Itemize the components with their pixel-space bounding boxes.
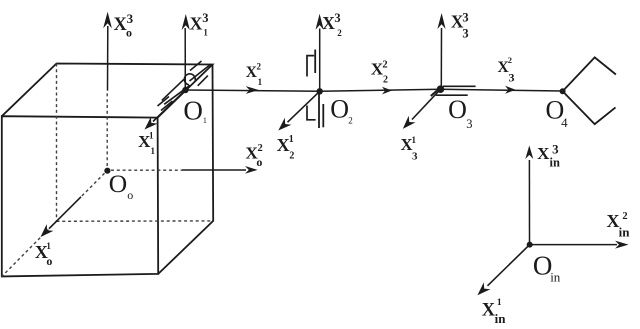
axis X_o^2 arrow — [182, 166, 258, 174]
svg-text:X: X — [537, 144, 550, 163]
axis X_3^2 arrow and link O_3 to O_4 — [441, 86, 563, 94]
svg-text:O: O — [183, 95, 203, 125]
svg-text:2: 2 — [348, 115, 353, 125]
label O_2 — [330, 94, 353, 125]
svg-text:1: 1 — [149, 130, 154, 140]
svg-text:1: 1 — [412, 135, 417, 145]
svg-text:o: o — [126, 25, 132, 39]
svg-text:3: 3 — [462, 27, 468, 41]
label X_2^1 — [277, 134, 295, 161]
axis X_2^2 arrow and link O_2 to O_3 — [320, 87, 441, 95]
axis X_o^2 hidden segment inside cube — [111, 169, 182, 171]
svg-text:o: o — [127, 188, 133, 202]
axis X_3^3 arrow — [437, 13, 445, 88]
svg-text:2: 2 — [258, 143, 263, 154]
cube hidden back-left vertical edge — [56, 64, 58, 222]
revolute joint cylinder at O_3 — [431, 86, 476, 96]
svg-text:O: O — [109, 169, 127, 198]
svg-text:1: 1 — [46, 241, 51, 251]
svg-text:1: 1 — [203, 27, 208, 37]
axis X_o^3 hidden segment inside cube — [106, 91, 108, 166]
svg-text:3: 3 — [466, 117, 472, 131]
svg-text:O: O — [448, 95, 467, 124]
label O_in — [533, 251, 561, 285]
svg-text:2: 2 — [383, 74, 388, 85]
svg-text:1: 1 — [151, 146, 156, 156]
label O_1 — [183, 95, 207, 125]
cube right face edges — [158, 65, 213, 274]
label X_2^2 — [371, 60, 388, 86]
label X_3^2 — [498, 55, 515, 85]
label O_3 — [448, 95, 472, 131]
svg-text:X: X — [190, 13, 203, 33]
label X_in^3 — [537, 141, 560, 169]
prismatic joint rod lower lines at O_2 — [319, 91, 323, 128]
svg-text:3: 3 — [334, 11, 340, 25]
label X_o^1 — [35, 241, 53, 268]
axis X_in^1 arrow — [477, 245, 529, 296]
svg-text:3: 3 — [462, 11, 468, 25]
svg-text:3: 3 — [127, 11, 134, 26]
label O_o — [109, 169, 134, 202]
gripper lower jaw at O_4 — [563, 91, 616, 124]
axis X_3^1 arrow — [403, 89, 441, 129]
label X_1^1 — [138, 130, 155, 156]
cube front face — [2, 116, 158, 276]
svg-text:3: 3 — [552, 141, 559, 156]
axis X_2^3 arrow — [316, 14, 324, 90]
axis X_1^3 arrow — [182, 14, 190, 89]
axis X_o^3 arrow — [103, 12, 112, 91]
svg-text:in: in — [495, 311, 507, 326]
svg-text:2: 2 — [337, 28, 342, 38]
label X_2^3 — [322, 11, 342, 38]
svg-text:1: 1 — [258, 77, 263, 87]
label X_in^1 — [482, 298, 507, 326]
origin O_o — [104, 168, 110, 174]
revolute joint cylinder at O_1 — [158, 61, 212, 111]
svg-text:3: 3 — [412, 150, 418, 162]
origin O_1 — [182, 87, 188, 93]
axis X_o^1 arrow — [41, 197, 82, 237]
svg-text:2: 2 — [508, 55, 512, 65]
label X_o^3 — [114, 11, 134, 40]
svg-text:X: X — [607, 211, 620, 231]
origin O_in — [527, 242, 533, 248]
svg-text:1: 1 — [289, 134, 294, 145]
label X_in^2 — [607, 211, 631, 240]
svg-text:2: 2 — [382, 60, 387, 71]
svg-text:in: in — [619, 224, 631, 239]
svg-text:X: X — [482, 301, 496, 321]
svg-text:2: 2 — [289, 150, 294, 161]
svg-text:1: 1 — [497, 298, 502, 308]
svg-text:2: 2 — [622, 211, 627, 222]
gripper upper jaw at O_4 — [563, 57, 616, 91]
svg-text:in: in — [550, 155, 560, 169]
origin O_3 — [437, 85, 445, 93]
cube top face edges — [2, 64, 213, 118]
label X_3^1 — [401, 135, 418, 163]
svg-text:3: 3 — [509, 71, 515, 85]
label X_3^3 — [451, 11, 469, 41]
svg-text:o: o — [256, 155, 262, 169]
prismatic joint bracket bottom at O_2 — [307, 106, 316, 120]
svg-text:in: in — [550, 269, 561, 284]
label X_1^3 — [190, 11, 209, 37]
axis X_1^1 arrow — [145, 90, 186, 130]
cube hidden bottom-back edge — [57, 220, 214, 222]
axis X_1^2 arrow and link O_1 to O_2 — [186, 86, 321, 94]
label X_1^2 — [246, 61, 263, 87]
svg-text:3: 3 — [202, 11, 208, 25]
axis X_o^1 hidden segment inside cube — [81, 173, 105, 197]
svg-text:4: 4 — [561, 115, 568, 130]
origin O_2 — [317, 88, 323, 94]
cube hidden bottom-left edge — [2, 221, 57, 276]
prismatic joint bracket top at O_2 — [307, 56, 314, 77]
svg-text:X: X — [322, 13, 335, 33]
svg-text:O: O — [330, 94, 349, 123]
label O_4 — [546, 96, 569, 131]
prismatic joint rod upper line at O_2 — [314, 50, 316, 74]
axis X_2^1 arrow — [278, 91, 319, 130]
origin O_4 — [560, 88, 566, 94]
axis X_in^3 arrow — [525, 146, 533, 244]
svg-text:o: o — [46, 254, 52, 268]
svg-text:2: 2 — [257, 61, 262, 71]
label X_o^2 — [246, 143, 263, 169]
axis X_in^2 arrow — [530, 241, 629, 249]
svg-text:1: 1 — [203, 116, 207, 125]
svg-text:X: X — [277, 135, 290, 155]
